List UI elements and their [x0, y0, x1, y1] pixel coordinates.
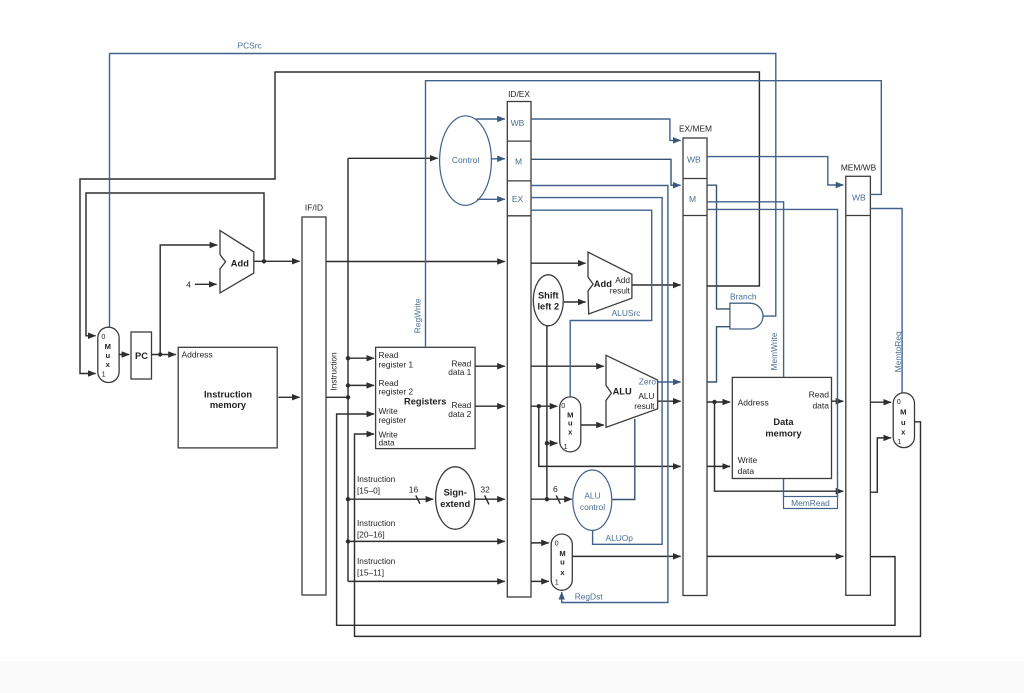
svg-text:Branch: Branch: [730, 292, 757, 302]
label Instruction (rotated): [328, 352, 338, 391]
svg-text:RegDst: RegDst: [575, 592, 604, 602]
svg-text:0: 0: [561, 401, 565, 410]
svg-text:Registers: Registers: [404, 397, 446, 407]
svg-text:1: 1: [102, 370, 106, 379]
registers box: [376, 347, 476, 448]
wire RegDst signal from ID/EX EX to RegDst mux: [531, 186, 668, 603]
svg-text:Control: Control: [452, 155, 480, 165]
wire write-back data loop to Registers Write data: [355, 422, 921, 637]
wire Instruction 20-16 ID/EX to RegDst mux input 0: [531, 542, 549, 544]
svg-text:ALU: ALU: [638, 391, 654, 401]
oval Shift left 2: [533, 275, 563, 326]
oval Control: [440, 116, 492, 206]
svg-text:Instruction: Instruction: [204, 389, 252, 399]
svg-text:Zero: Zero: [639, 377, 657, 387]
svg-text:WB: WB: [852, 193, 866, 203]
svg-text:16: 16: [409, 485, 419, 495]
wire PCSrc from branch gate to PC mux select: [110, 41, 776, 327]
wire WB ID/EX to EX/MEM: [531, 119, 681, 140]
svg-text:6: 6: [553, 484, 558, 494]
mux ALUSrc: [560, 397, 581, 452]
svg-text:Add: Add: [231, 259, 249, 269]
wire Read data 2 to ID/EX: [475, 405, 505, 407]
svg-text:data: data: [738, 466, 755, 476]
svg-text:extend: extend: [440, 499, 470, 509]
node instruction junctions: [346, 356, 350, 544]
svg-text:data 2: data 2: [448, 409, 471, 419]
svg-text:Read: Read: [809, 390, 830, 400]
wire MemWrite signal to data memory: [707, 202, 784, 377]
svg-text:1: 1: [897, 437, 901, 446]
wire to Read register 2: [348, 384, 374, 386]
node Read data 2 junction: [537, 404, 541, 408]
wire write register loop to Registers Write register: [337, 414, 895, 625]
svg-text:Sign-: Sign-: [444, 487, 467, 497]
wire Read data 1 to ID/EX: [475, 365, 505, 367]
node Add output junction: [262, 259, 266, 263]
svg-text:register 1: register 1: [379, 359, 414, 369]
register MEM/WB: [841, 163, 877, 596]
adder Add (branch): [588, 252, 632, 314]
svg-text:control: control: [580, 502, 605, 512]
svg-text:MemWrite: MemWrite: [769, 332, 779, 370]
wire Instruction 15-11 to ID/EX: [348, 556, 505, 581]
svg-text:u: u: [901, 418, 906, 427]
svg-text:Add: Add: [615, 275, 630, 285]
wire to Read register 1: [348, 357, 374, 359]
svg-text:M: M: [900, 408, 906, 417]
svg-text:u: u: [568, 418, 573, 427]
wire RegDst mux to EX/MEM: [572, 555, 680, 557]
wire sign-extended vertical to Shift left 2: [546, 326, 548, 500]
wire ALUSrc signal from ID/EX EX to ALUSrc mux select: [531, 210, 652, 397]
svg-text:IF/ID: IF/ID: [305, 203, 323, 213]
wire memory Read data to MEM/WB: [832, 400, 844, 402]
wire Sign-extend to ID/EX: [475, 484, 505, 504]
svg-text:Write: Write: [738, 455, 758, 465]
svg-text:32: 32: [480, 484, 490, 494]
svg-text:0: 0: [101, 332, 105, 341]
mux PCSrc (left): [98, 327, 119, 382]
svg-text:MEM/WB: MEM/WB: [841, 163, 877, 173]
svg-text:Instruction: Instruction: [357, 518, 396, 528]
svg-text:ALU: ALU: [613, 386, 632, 396]
svg-text:[15–11]: [15–11]: [357, 568, 384, 578]
wire branch target from EX/MEM to mux input 1: [80, 72, 759, 374]
node PC output junction: [158, 352, 162, 356]
wire sign-extended ID/EX to ALU control: [531, 484, 572, 504]
wire write data EX/MEM to data memory: [707, 465, 730, 467]
wire instruction vertical bus: [347, 158, 349, 581]
mux RegDst: [551, 534, 572, 590]
wire ALU result bypass to MEM/WB: [715, 402, 844, 491]
svg-text:0: 0: [897, 397, 901, 406]
wire Read data 2 down to EX/MEM: [539, 406, 681, 466]
instruction memory box: [178, 347, 277, 448]
svg-text:[15–0]: [15–0]: [357, 486, 380, 496]
svg-text:ALUSrc: ALUSrc: [612, 308, 641, 318]
wire IF/ID instruction out: [326, 396, 348, 398]
wire Zero ALU to EX/MEM: [658, 381, 681, 383]
svg-text:EX: EX: [512, 194, 524, 204]
wire ALU result MEM/WB to mux input 1: [870, 438, 891, 492]
wire WB EX/MEM to MEM/WB: [707, 157, 843, 185]
svg-text:MemtoReg: MemtoReg: [893, 331, 903, 372]
wire RegWrite signal MEM/WB to Registers: [413, 81, 882, 347]
svg-text:data: data: [379, 437, 396, 447]
svg-text:register 2: register 2: [379, 387, 414, 397]
wire Control to ID/EX WB: [476, 118, 505, 120]
svg-text:Data: Data: [773, 417, 794, 427]
svg-text:M: M: [689, 194, 696, 204]
wire ALUOp signal from ID/EX EX to ALU control: [531, 198, 662, 545]
svg-text:PC: PC: [135, 351, 148, 361]
adder Add (PC+4): [220, 231, 254, 293]
svg-text:u: u: [560, 557, 565, 566]
data memory box: [732, 377, 831, 478]
wire instruction memory to IF/ID: [278, 396, 299, 398]
wire Read data 1 to ALU: [531, 365, 604, 367]
wire ALUSrc mux to ALU: [581, 424, 604, 426]
svg-text:ID/EX: ID/EX: [508, 89, 530, 99]
svg-text:ALU: ALU: [584, 490, 600, 500]
oval Sign-extend: [436, 467, 475, 529]
svg-text:Read: Read: [379, 350, 399, 360]
wire Add output to IF/ID: [254, 260, 300, 262]
svg-text:memory: memory: [765, 429, 802, 439]
svg-text:Address: Address: [738, 398, 769, 408]
wire Shift left 2 to branch Add: [564, 301, 586, 303]
svg-text:0: 0: [555, 539, 559, 548]
svg-text:4: 4: [186, 279, 191, 289]
wire Read data MEM/WB to mux input 0: [870, 401, 891, 403]
register IF/ID: [302, 203, 326, 596]
wire PC to Add top input: [160, 245, 217, 355]
svg-text:left 2: left 2: [537, 302, 559, 312]
svg-text:PCSrc: PCSrc: [238, 41, 262, 51]
svg-text:M: M: [105, 342, 111, 351]
svg-text:data: data: [812, 401, 829, 411]
wire Instruction 20-16 to ID/EX: [348, 518, 505, 541]
svg-text:WB: WB: [687, 155, 701, 165]
wire branch Add result to EX/MEM: [632, 284, 681, 286]
svg-text:memory: memory: [210, 400, 247, 410]
register EX/MEM: [679, 124, 712, 596]
svg-text:[20–16]: [20–16]: [357, 530, 385, 540]
ALU: [606, 355, 658, 427]
wire PC+4 IF/ID to ID/EX: [326, 261, 505, 263]
page background bottom band: [0, 661, 1024, 693]
svg-text:MemRead: MemRead: [791, 498, 830, 508]
svg-text:ALUOp: ALUOp: [606, 533, 634, 543]
svg-text:Instruction: Instruction: [328, 352, 338, 391]
svg-text:RegWrite: RegWrite: [413, 298, 423, 333]
wire ALU control to ALU: [612, 419, 635, 500]
and-gate Branch: [730, 303, 763, 329]
svg-text:result: result: [634, 401, 655, 411]
wire PC to instruction memory Address: [152, 354, 176, 356]
wire mux to PC: [119, 354, 129, 356]
wire constant 4 to Add: [186, 279, 216, 289]
svg-text:Instruction: Instruction: [357, 556, 396, 566]
svg-text:EX/MEM: EX/MEM: [679, 124, 712, 134]
wire instruction to Control: [348, 157, 438, 159]
wire Read data 2 to ALUSrc mux input 0: [531, 405, 557, 407]
wire Branch signal EX/MEM to and-gate: [707, 185, 757, 309]
register ID/EX: [507, 89, 531, 597]
wire sign-extended to ALUSrc mux input 1: [547, 442, 557, 444]
svg-text:1: 1: [555, 577, 559, 586]
wire PC+4 ID/EX to branch Add: [531, 262, 586, 264]
svg-text:Shift: Shift: [538, 291, 559, 301]
wire PC+4 back to mux input 0: [86, 193, 264, 336]
node ALU result junction: [712, 400, 716, 404]
wire Zero EX/MEM to and-gate: [707, 327, 730, 382]
wire write register EX/MEM to MEM/WB: [707, 555, 843, 557]
node sign-extend junctions: [545, 441, 549, 501]
svg-text:result: result: [610, 286, 631, 296]
wire Instruction 15-0 to Sign-extend: [348, 474, 433, 504]
wire Control to ID/EX M: [491, 158, 505, 160]
svg-text:u: u: [105, 351, 110, 360]
oval ALU control: [573, 470, 612, 530]
wire Instruction 15-11 ID/EX to RegDst mux input 1: [531, 580, 549, 582]
svg-text:register: register: [379, 415, 407, 425]
svg-text:WB: WB: [511, 118, 525, 128]
wire ALU result to EX/MEM: [658, 400, 681, 402]
PC register: [131, 332, 152, 379]
mux MemtoReg (right): [893, 393, 914, 448]
wire ALU result EX/MEM to data memory Address: [707, 401, 730, 403]
svg-text:Instruction: Instruction: [357, 474, 396, 484]
wire MemtoReg signal MEM/WB to mux select: [870, 209, 903, 393]
svg-text:Address: Address: [182, 349, 213, 359]
svg-text:1: 1: [564, 442, 568, 451]
wire Control to ID/EX EX: [477, 198, 505, 200]
wire MemRead signal to data memory: [707, 209, 838, 508]
svg-text:data 1: data 1: [448, 367, 471, 377]
wire M ID/EX to EX/MEM: [531, 159, 681, 185]
svg-text:M: M: [515, 157, 522, 167]
